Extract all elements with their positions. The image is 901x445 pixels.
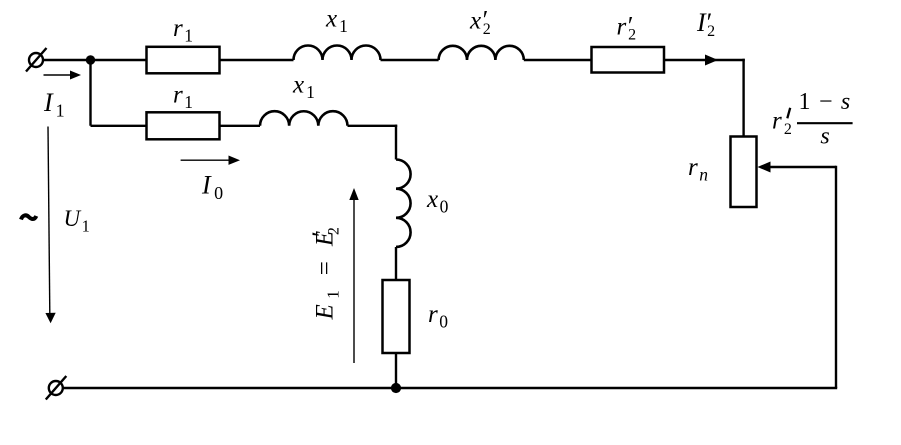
svg-text:I′2: I′2 bbox=[696, 8, 715, 40]
svg-text:rn: rn bbox=[688, 154, 708, 185]
svg-text:x′2: x′2 bbox=[469, 6, 491, 39]
wire bbox=[395, 247, 397, 280]
wire bbox=[524, 59, 592, 61]
wire bbox=[220, 59, 294, 61]
terminal bottom-left bbox=[46, 376, 67, 400]
resistor r1 (magnetizing branch) bbox=[147, 112, 220, 139]
svg-text:1 − s: 1 − s bbox=[799, 89, 852, 115]
wire node down (magnetizing branch) bbox=[89, 60, 91, 126]
wire down to rn bbox=[742, 59, 744, 137]
svg-text:r0: r0 bbox=[428, 301, 448, 332]
wire with I2' arrow bbox=[664, 59, 745, 61]
wire bbox=[91, 125, 147, 127]
wire top: terminal to r1 bbox=[43, 59, 147, 61]
wire bbox=[395, 353, 397, 388]
wire corner down bbox=[395, 125, 397, 160]
resistor r2' bbox=[592, 47, 665, 73]
svg-text:r1: r1 bbox=[173, 15, 193, 46]
svg-text:x1: x1 bbox=[292, 72, 315, 103]
resistor r1 (stator, top) bbox=[147, 47, 220, 74]
wiper arrow into rn bbox=[762, 166, 836, 168]
label r2'(1-s)/s bbox=[772, 89, 853, 150]
inductor x0 (vertical) bbox=[396, 160, 411, 247]
svg-text:r1: r1 bbox=[173, 82, 193, 113]
wire right side down bbox=[835, 166, 837, 388]
inductor x1 (magnetizing branch) bbox=[260, 111, 347, 126]
svg-text:U1: U1 bbox=[64, 206, 90, 236]
svg-text:E1=E′2: E1=E′2 bbox=[307, 227, 343, 320]
wire bbox=[220, 125, 261, 127]
bottom rail bbox=[63, 387, 837, 389]
node junction dot bbox=[86, 55, 95, 64]
resistor rn bbox=[731, 137, 757, 208]
label ~ (AC source) bbox=[21, 215, 36, 219]
wire bbox=[381, 59, 439, 61]
arrow I0 bbox=[181, 159, 229, 161]
terminal top-left bbox=[26, 48, 47, 72]
svg-text:r′2: r′2 bbox=[617, 11, 637, 43]
arrow I1 (top-left) bbox=[44, 74, 72, 76]
arrow U1 (long, left) bbox=[48, 127, 50, 314]
svg-text:I0: I0 bbox=[201, 171, 223, 204]
inductor x2' bbox=[439, 46, 524, 60]
svg-text:x1: x1 bbox=[325, 6, 348, 37]
inductor x1 (stator, top) bbox=[294, 45, 381, 60]
svg-text:I1: I1 bbox=[43, 88, 65, 121]
resistor r0 bbox=[383, 280, 410, 353]
svg-text:x0: x0 bbox=[426, 186, 449, 217]
junction dot bottom bbox=[391, 383, 401, 393]
wire to corner bbox=[348, 125, 398, 127]
svg-text:s: s bbox=[820, 124, 829, 150]
arrow E1=E2' (vertical up) bbox=[353, 199, 355, 363]
arrowhead I2' bbox=[705, 55, 718, 66]
